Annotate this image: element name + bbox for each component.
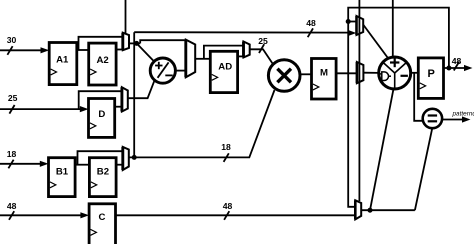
wire from top to ALU [392,0,394,57]
wire Z mux output [361,209,415,211]
wire A2 to A mux [116,49,123,51]
wire AD to AD mux [238,55,244,57]
svg-text:30: 30 [7,35,17,45]
svg-text:18: 18 [221,142,231,152]
wire slash 18 mult [224,153,229,162]
svg-text:AD: AD [218,61,232,72]
wire B mux output 18 to multiplier [129,90,275,157]
svg-text:M: M [320,68,328,79]
wire diagonal A to pre-adder [138,44,155,62]
wire pre-adder to big mux [175,70,185,72]
wire slash 25 [9,105,14,114]
wire from top through muxes to Z [358,0,360,201]
node junction feedback to X [346,19,351,24]
wire slash 30 [7,46,12,55]
wire A bypass over A2 [79,37,124,50]
svg-text:P: P [428,68,435,80]
mux AD bypass [244,42,250,58]
register B1 [49,158,76,197]
svg-text:48: 48 [7,201,17,211]
register A1 [49,43,77,85]
wire B1 to B2 [75,164,89,166]
register M [312,59,337,100]
wire slash P out 48 [454,62,459,71]
wire ALU to P [411,72,419,74]
wire D bypass over D [79,91,122,109]
wire P feedback up and across [348,8,449,207]
wire multiplier to M [300,73,312,75]
wire big mux to AD [195,58,210,60]
wire D mux output to pre-adder [128,81,155,98]
node junction P out [446,66,451,71]
op pattern detect = [423,109,442,128]
mux D (pre-adder input) [122,87,128,111]
svg-text:B2: B2 [97,166,109,177]
svg-text:48: 48 [306,18,316,28]
svg-text:C: C [99,212,106,223]
op ALU [379,57,411,89]
wire branch to pattern detect [414,73,423,121]
svg-text:B1: B1 [56,166,69,177]
wire B bypass over B2 [78,151,123,165]
wire slash 48 [9,211,14,220]
svg-text:48: 48 [223,201,233,211]
wire slash 18 [8,160,13,169]
svg-text:A2: A2 [96,55,108,66]
node junction B [132,155,137,160]
wire Z to pattern detect [415,128,432,210]
svg-text:25: 25 [258,36,268,46]
wire A:B 48 to X mux [134,31,349,33]
wire P feedback top [444,67,466,69]
wire X mux to ALU [363,25,388,59]
wire Y mux to ALU [363,72,378,74]
wire from top into A mux [125,0,127,34]
wire A:B vertical [133,32,135,157]
wire B input 18 [0,163,41,165]
wire slash A:B 48 [308,28,313,37]
svg-text:25: 25 [8,93,18,103]
mux A (after A2) [123,33,129,51]
register C [89,204,115,244]
register A2 [89,43,116,85]
wire D input 25 [0,108,81,110]
mux X [357,16,364,35]
node junction A [134,41,139,46]
svg-text:18: 18 [7,149,17,159]
ALU logic gate glyph [379,72,391,81]
register B2 [89,158,116,197]
svg-text:A1: A1 [56,54,69,65]
wire AD bypass [204,46,244,59]
wire Z to ALU [370,89,393,210]
wire A direct to big mux [140,40,186,43]
svg-text:48: 48 [452,56,462,66]
wire B2 to B mux [116,164,123,166]
wire C input 48 [0,214,82,216]
wire A input 30 [0,49,42,51]
wire A1 to A2 [77,49,89,51]
register D [89,99,115,138]
wire A mux output [129,42,140,44]
wire slash 25 mult [259,44,264,53]
mux Y [357,62,364,83]
svg-text:D: D [98,109,105,120]
svg-text:patterndetect: patterndetect [452,110,474,117]
op pre-adder +/- [150,58,175,83]
register AD [210,51,237,92]
wire D to D mux [115,106,122,108]
node arrow into A1 [41,47,50,53]
wire AD mux to multiplier 25 [250,49,274,64]
wire feedback to X mux [348,21,356,23]
wire slash C 48 [224,211,229,220]
mux Z [355,200,361,219]
wire pattern detect output [442,119,463,121]
mux B (after B2) [123,147,129,170]
wire C to Z mux 48 [116,214,356,216]
node junction Z [368,208,373,213]
mux pre-adder bypass (big) [186,40,195,78]
register P [418,58,443,99]
wire M to Y mux [336,72,357,74]
op multiplier [268,60,300,92]
